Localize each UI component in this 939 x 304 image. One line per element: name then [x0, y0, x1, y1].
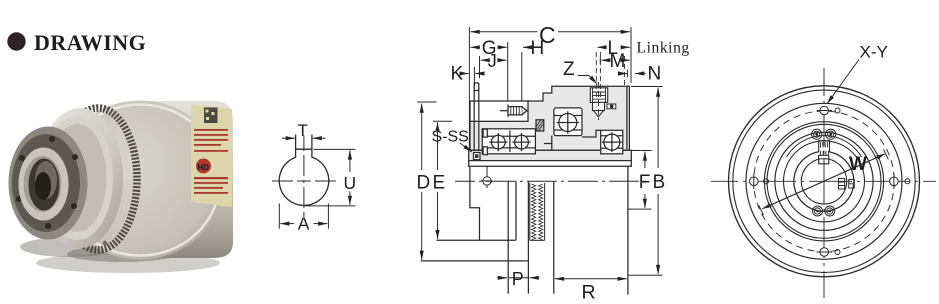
dim L [598, 46, 630, 48]
centerline vertical [303, 136, 305, 218]
dim M [600, 57, 629, 65]
dim G [471, 42, 508, 102]
bearing block [482, 129, 535, 154]
companion hole top [835, 108, 840, 113]
svg-text:E: E [433, 173, 446, 194]
label sticker [191, 104, 232, 207]
E register double circle [764, 122, 883, 241]
screws bottom [814, 208, 833, 214]
grease hole at flange [482, 166, 493, 188]
ground shadow [36, 253, 220, 273]
horizontal centerline [711, 180, 936, 182]
right bearing B4 [601, 130, 623, 154]
step to right bearing [582, 130, 601, 137]
block tabs [483, 129, 487, 137]
D silhouette line [421, 260, 529, 262]
svg-text:T: T [298, 121, 308, 140]
bore [29, 159, 60, 211]
svg-text:X-Y: X-Y [860, 43, 888, 62]
centerline horizontal [272, 180, 336, 182]
dim U [305, 149, 356, 206]
plate tick [474, 90, 479, 92]
inner recess circle [801, 159, 846, 204]
seal S-SS target [474, 153, 481, 160]
X-Y leader [827, 60, 859, 104]
outer circle [729, 86, 920, 277]
linking dashes [624, 56, 626, 86]
dim J [480, 56, 507, 78]
outer rim inner circle [733, 90, 915, 272]
lower verticals [508, 182, 528, 294]
middle cross-section view [417, 22, 690, 304]
set screw side glyph 1 [839, 179, 845, 190]
key block [819, 155, 829, 164]
vertical centerline [823, 68, 825, 298]
screw axis dashed [598, 82, 600, 120]
bolt hole right [890, 174, 899, 190]
right lower verticals [554, 166, 628, 294]
collar scallop top [787, 136, 862, 157]
svg-text:K: K [451, 64, 464, 85]
dim F [631, 151, 651, 208]
front face holes [77, 119, 82, 124]
companion hole bottom [835, 250, 840, 255]
big bearing B3 [554, 108, 582, 136]
ring screw holes [49, 136, 55, 142]
bolt circle dashed [754, 111, 895, 252]
detent ball [607, 104, 616, 109]
dim W line [759, 150, 889, 216]
flange plate section band [469, 150, 632, 160]
block races [483, 131, 535, 153]
label logo [196, 159, 211, 174]
dim R [555, 278, 627, 280]
F bottom extension [628, 208, 652, 210]
front dark ring [12, 134, 80, 232]
dim P [497, 277, 540, 279]
companion hole right [905, 179, 910, 184]
lower hub outline [470, 166, 480, 240]
title bullet [7, 32, 25, 50]
dim H [522, 47, 530, 101]
gear teeth ring [59, 108, 137, 250]
set screw side glyph 2 [849, 180, 855, 189]
bearing B1 [489, 133, 507, 151]
keyway [819, 141, 830, 153]
bolt hole left [750, 174, 759, 190]
keyway hatch [821, 142, 828, 148]
svg-text:J: J [488, 51, 497, 71]
svg-text:P: P [512, 269, 524, 289]
svg-text:Z: Z [563, 59, 575, 80]
dim Z leader [578, 76, 598, 84]
flange plate lower face [469, 161, 632, 167]
cavity box [470, 101, 528, 121]
front ring flange [9, 127, 88, 240]
dim T [282, 137, 326, 139]
body front circle [746, 103, 902, 259]
svg-text:M: M [610, 51, 626, 72]
set screw Z target [590, 88, 607, 117]
svg-text:HD: HD [198, 163, 210, 172]
centerline [455, 180, 646, 182]
bearing B2 [512, 133, 530, 151]
shaft section diagram [272, 121, 356, 234]
body front rim highlight [60, 105, 220, 256]
svg-text:H: H [531, 38, 545, 59]
svg-text:B: B [653, 172, 666, 193]
collar ring [19, 148, 69, 221]
svg-text:D: D [417, 173, 431, 194]
dim K [463, 67, 485, 86]
shaft bore circle [279, 157, 329, 205]
label qr code [204, 108, 218, 124]
bolt hole top (X-Y) [817, 106, 833, 115]
dim D [417, 102, 437, 260]
screw recesses top [812, 129, 822, 139]
B bottom extension [628, 274, 663, 276]
right front view [711, 43, 936, 299]
collar circle [784, 141, 865, 222]
dim N [618, 70, 646, 78]
photo: pneumatic tooth clutch product [9, 101, 234, 274]
mid disc edge shade [48, 124, 107, 232]
companion hole left [764, 179, 769, 184]
spline hatch [536, 120, 544, 131]
svg-text:A: A [298, 214, 310, 234]
bolt hole bottom [817, 248, 833, 257]
dim B [631, 87, 663, 275]
dim A [279, 204, 328, 229]
mid polished disc [37, 108, 123, 248]
dim C [469, 27, 631, 150]
screw dashed extensions [596, 52, 600, 100]
svg-text:R: R [582, 282, 596, 304]
mounting plate [474, 83, 479, 150]
svg-text:W: W [849, 154, 867, 175]
keyway slot [296, 135, 312, 158]
screw recesses bottom [813, 206, 823, 216]
grease fitting [500, 104, 527, 117]
svg-text:N: N [648, 64, 662, 85]
body right face [626, 86, 628, 150]
body front disc [56, 101, 224, 260]
hub outer circle [775, 132, 873, 230]
body section gray [470, 86, 629, 150]
svg-text:F: F [639, 172, 651, 193]
screws top [814, 131, 834, 137]
svg-text:Linking: Linking [637, 40, 690, 57]
label text lines [194, 129, 228, 152]
bore circle with keyway gap [794, 152, 854, 212]
svg-text:DRAWING: DRAWING [34, 30, 146, 55]
spline shaft [530, 183, 545, 240]
body cylinder side [143, 101, 233, 258]
E silhouette line [437, 239, 516, 241]
label S-SS leader [460, 143, 472, 152]
step below big bearing [544, 136, 552, 151]
svg-text:U: U [344, 173, 357, 193]
dim E [433, 121, 452, 239]
